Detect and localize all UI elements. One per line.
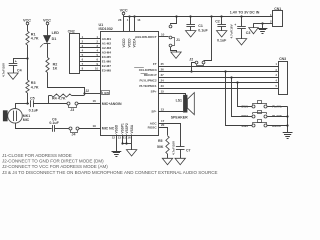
wire SP- to speaker — [158, 111, 183, 113]
ground under VSSA — [126, 150, 136, 156]
svg-text:MIC: MIC — [23, 118, 30, 122]
ground under J1 — [171, 52, 181, 58]
wire PLYL to SW1 — [238, 83, 253, 107]
resistor R4 4.7K — [49, 94, 85, 101]
resistor R5 50K — [157, 136, 169, 154]
jumper J2 — [189, 57, 205, 65]
overline REC — [141, 73, 148, 75]
svg-text:E2-M7: E2-M7 — [102, 64, 111, 68]
svg-text:PLYE/PMC1: PLYE/PMC1 — [139, 84, 157, 88]
earth ground VSSD — [112, 151, 122, 153]
wire to IC LED pin — [84, 93, 100, 95]
svg-text:MIC NC: MIC NC — [102, 127, 115, 131]
svg-text:CN1: CN1 — [274, 7, 281, 11]
wire SW1 to ground bus — [267, 106, 288, 108]
IC LED pin boxed label — [85, 89, 109, 96]
ground under C7 — [175, 158, 185, 164]
junction XCLK drop — [224, 70, 226, 72]
svg-text:20: 20 — [161, 123, 165, 127]
svg-text:A1-M2: A1-M2 — [102, 41, 112, 45]
svg-text:13: 13 — [161, 107, 165, 111]
svg-text:J1: J1 — [176, 38, 180, 42]
junction CN1 ground — [261, 22, 263, 24]
svg-text:5: 5 — [276, 84, 278, 88]
svg-text:REC/R-P: REC/R-P — [144, 73, 157, 77]
wire LED to R2 — [47, 43, 49, 57]
svg-text:CN3: CN3 — [279, 57, 286, 61]
svg-text:21: 21 — [123, 136, 127, 140]
svg-text:VSSP2: VSSP2 — [125, 123, 129, 134]
svg-text:SP-: SP- — [151, 110, 156, 114]
wire C6 to J4 — [55, 128, 69, 130]
wire mic bottom — [15, 123, 17, 128]
svg-text:J2-CONNECT TO VCC FOR ADDRESS: J2-CONNECT TO VCC FOR ADDRESS MODE (AM) — [2, 164, 108, 169]
wire VCCD pin stub 2 — [129, 17, 131, 31]
wire IC A9 pin to J1 — [158, 36, 169, 38]
earth ground CN1 — [258, 23, 268, 33]
svg-text:A9/LOW-DRCT: A9/LOW-DRCT — [135, 35, 157, 39]
svg-text:16: 16 — [137, 18, 141, 22]
power symbol VCC main — [120, 8, 128, 16]
svg-text:4: 4 — [276, 79, 278, 83]
svg-text:R4 4.7K: R4 4.7K — [52, 97, 66, 101]
svg-text:24: 24 — [161, 78, 165, 82]
wire rail to J2 — [204, 17, 212, 61]
wire R5 to ground — [167, 154, 169, 158]
wire SW3 to ground bus — [267, 125, 288, 127]
svg-text:50K: 50K — [157, 145, 164, 149]
svg-text:E0-M5: E0-M5 — [102, 55, 111, 59]
svg-text:0.1uF: 0.1uF — [217, 39, 227, 43]
wire R4 to mic bus — [48, 96, 50, 104]
svg-text:VCC: VCC — [120, 8, 128, 12]
svg-text:4.7uF/16V: 4.7uF/16V — [1, 63, 5, 77]
junction SW2 bus — [286, 115, 288, 117]
svg-text:16: 16 — [127, 136, 131, 140]
junction rail C1 — [189, 15, 191, 17]
svg-text:3: 3 — [276, 73, 278, 77]
node A junction — [26, 57, 28, 59]
svg-text:+: + — [234, 23, 236, 27]
IC top power pin labels — [122, 38, 137, 48]
wire C3 to ground — [241, 29, 243, 39]
svg-text:R5: R5 — [158, 139, 163, 143]
speaker LS1 — [171, 93, 195, 120]
IC bottom ground pin labels — [115, 123, 134, 134]
svg-text:26: 26 — [161, 68, 165, 72]
junction rail J1 — [175, 15, 177, 17]
wire to chassis ground — [254, 23, 263, 25]
svg-text:23: 23 — [161, 84, 165, 88]
svg-text:LS1: LS1 — [176, 99, 182, 103]
svg-text:A3-M4: A3-M4 — [102, 50, 112, 54]
svg-text:VCCD: VCCD — [128, 38, 132, 48]
svg-text:4.7uF/16V: 4.7uF/16V — [172, 141, 176, 155]
wire CN2 pin 8 to IC — [80, 66, 100, 70]
wire REC line to CN3 — [158, 73, 278, 78]
wire to ground triangle — [131, 144, 133, 150]
wire VSSP2 stub — [126, 135, 128, 144]
wire SP+ to speaker — [159, 94, 186, 96]
IC U1 ISD1032 body — [99, 23, 159, 136]
wire rail to J1 top — [171, 17, 177, 25]
wire AGC to C7 — [159, 124, 181, 147]
svg-text:2: 2 — [270, 20, 272, 24]
svg-text:25: 25 — [161, 62, 165, 66]
wire C5 to J3 — [33, 103, 67, 105]
wire node A to C4 — [13, 58, 27, 60]
svg-text:D1: D1 — [52, 37, 57, 41]
svg-text:10: 10 — [95, 66, 98, 70]
overline XCLK — [134, 67, 144, 69]
wire PLYL line to CN3 — [158, 78, 278, 82]
svg-text:0.1uF: 0.1uF — [198, 29, 208, 33]
svg-text:SW2: SW2 — [241, 114, 248, 118]
svg-text:VSSD: VSSD — [115, 124, 119, 133]
junction VSSP1 — [121, 142, 123, 144]
wire switch ground bus — [287, 107, 289, 133]
svg-text:E1-M6: E1-M6 — [102, 59, 111, 63]
wire R2 to LED pin — [48, 73, 85, 96]
svg-text:J2: J2 — [189, 57, 193, 61]
capacitor C4 4.7uF/16V — [1, 59, 21, 77]
svg-text:SPEAKER: SPEAKER — [171, 116, 188, 120]
svg-text:6: 6 — [97, 57, 99, 61]
ground under R5 — [162, 158, 172, 164]
wire R1 to node A — [27, 45, 29, 80]
svg-text:12: 12 — [112, 136, 116, 140]
junction REC drop — [230, 76, 232, 78]
svg-text:16: 16 — [93, 99, 97, 103]
connector CN1 — [270, 7, 283, 27]
IC left pin labels — [102, 37, 112, 73]
svg-text:+: + — [15, 59, 17, 63]
resistor R1 4.7K — [26, 31, 39, 45]
svg-text:1K: 1K — [53, 67, 58, 71]
resistor R3 4.7K — [26, 80, 39, 93]
junction rail J2 — [210, 15, 212, 17]
junction SW3 bus — [286, 124, 288, 126]
wire rail to C2 — [221, 17, 223, 25]
capacitor C3 4.7uF/16V — [230, 23, 251, 39]
wire PLYE line to CN3 — [158, 84, 278, 89]
svg-text:SW1: SW1 — [241, 105, 248, 109]
wire XCLK line to CN3 — [158, 68, 278, 72]
wire C2 to ground — [221, 27, 223, 31]
wire CN1 ground pin — [263, 23, 273, 25]
svg-text:J3 & J4 TO DISCONNECT THE ON B: J3 & J4 TO DISCONNECT THE ON BOARD MICRO… — [2, 170, 217, 175]
junction rail C2 — [220, 15, 222, 17]
svg-text:VCCD: VCCD — [122, 38, 126, 48]
svg-text:MIC+ANGIN: MIC+ANGIN — [102, 102, 122, 106]
svg-text:C2: C2 — [215, 19, 220, 23]
svg-text:LED: LED — [102, 92, 109, 96]
junction PLYL drop — [236, 81, 238, 83]
wire CN2 pin 7 to IC — [80, 62, 100, 66]
earth ground switches — [283, 133, 293, 139]
ground under C4 — [8, 73, 18, 79]
svg-text:C7: C7 — [186, 148, 191, 152]
junction J2 XCLK line — [190, 70, 192, 72]
switch SW2 PLAYE — [241, 111, 282, 119]
svg-text:VSSA: VSSA — [130, 124, 134, 133]
wire rail to C3 — [241, 17, 243, 27]
wire CN2 pin 3 to IC — [80, 44, 100, 48]
wire VSSP1 stub — [122, 135, 124, 144]
svg-text:ISD1032: ISD1032 — [99, 27, 113, 31]
svg-text:VSSP1: VSSP1 — [120, 123, 124, 134]
wire XCLK to SW3 — [226, 72, 253, 126]
svg-text:E3-M8: E3-M8 — [102, 68, 111, 72]
wire SW2 to ground bus — [267, 116, 288, 118]
svg-text:J1-CLOSE FOR ADDRESS MODE: J1-CLOSE FOR ADDRESS MODE — [2, 153, 72, 158]
wire J4 to IC MIC REF pin — [79, 128, 100, 130]
svg-text:1: 1 — [276, 62, 278, 66]
wire J2 to XCLK line — [192, 63, 196, 72]
power symbol VCC (R1 branch) — [23, 19, 31, 32]
jumper J1 — [169, 25, 180, 47]
connector CN2 — [68, 30, 80, 74]
LED D1 — [40, 31, 59, 47]
wire J1 bottom to ground — [171, 47, 177, 53]
svg-text:6: 6 — [82, 57, 84, 61]
svg-text:0.1uF: 0.1uF — [49, 121, 59, 125]
wire C7 to ground — [180, 149, 182, 158]
svg-text:4: 4 — [97, 48, 99, 52]
switch SW3 RECD — [241, 120, 281, 128]
wire VCCD pin 28 stub — [123, 17, 125, 31]
VCC rail wire — [124, 16, 273, 18]
svg-text:C1: C1 — [198, 24, 203, 28]
svg-text:XCLK/PMC3: XCLK/PMC3 — [139, 68, 157, 72]
junction R3/mic bus — [26, 102, 28, 104]
wire J3 to IC MIC+ pin — [78, 103, 100, 105]
connector CN3 — [276, 57, 288, 95]
capacitor C2 0.1uF — [215, 19, 227, 42]
svg-text:FT: FT — [153, 62, 157, 66]
svg-text:10: 10 — [161, 32, 165, 36]
wire VSSA stub — [131, 135, 133, 144]
svg-text:A2-M3: A2-M3 — [102, 46, 112, 50]
svg-text:15: 15 — [161, 89, 165, 93]
wire ROSC to R5 — [159, 128, 168, 136]
wire CN2 pin 6 to IC — [80, 57, 100, 61]
wire CN2 pin 1 to IC — [80, 35, 100, 39]
junction VSSP2 — [125, 142, 127, 144]
ground under C1 — [186, 31, 196, 37]
microphone MK1 — [3, 109, 30, 124]
wire C4 to ground — [13, 66, 15, 73]
svg-text:4.7uF/16V: 4.7uF/16V — [230, 24, 234, 38]
svg-text:2: 2 — [82, 39, 84, 43]
jumper J4 — [69, 127, 79, 137]
capacitor C5 0.1uF — [29, 96, 39, 112]
svg-text:VCCA: VCCA — [133, 38, 137, 48]
svg-text:CN2: CN2 — [68, 30, 75, 34]
capacitor C7 4.7uF/16V — [172, 141, 191, 155]
wire CN2 pin 5 to IC — [80, 53, 100, 57]
svg-text:8: 8 — [82, 66, 84, 70]
wire rail to C1 — [190, 17, 192, 25]
svg-text:J4: J4 — [72, 133, 76, 137]
svg-text:0.1uF: 0.1uF — [29, 109, 39, 113]
power symbol VCC (LED branch) — [43, 19, 51, 36]
wire CN2 pin 2 to IC — [80, 39, 100, 43]
jumper J3 — [67, 102, 78, 112]
svg-text:C3: C3 — [246, 31, 251, 35]
svg-text:SP+: SP+ — [151, 90, 157, 94]
wire mic top to bus — [15, 104, 17, 109]
ground triangle CN1 — [249, 28, 259, 34]
junction rail VCCA — [133, 15, 135, 17]
svg-text:J3: J3 — [70, 108, 74, 112]
svg-text:27: 27 — [161, 73, 165, 77]
svg-text:22: 22 — [85, 89, 89, 93]
svg-text:LED: LED — [52, 31, 60, 35]
svg-text:J2-CONNECT TO GND FOR DIRECT M: J2-CONNECT TO GND FOR DIRECT MODE (DM) — [2, 159, 104, 164]
svg-text:1: 1 — [127, 18, 129, 22]
svg-text:1.4V TO 3V DC IN: 1.4V TO 3V DC IN — [230, 11, 260, 15]
svg-text:13: 13 — [118, 136, 122, 140]
wire CN2 pin 4 to IC — [80, 48, 100, 52]
wire C1 to ground — [190, 27, 192, 31]
svg-text:SW3: SW3 — [241, 124, 248, 128]
junction rail VCCD — [128, 15, 130, 17]
svg-text:ROSC: ROSC — [148, 125, 158, 129]
svg-text:4: 4 — [82, 48, 84, 52]
svg-text:2: 2 — [97, 39, 99, 43]
svg-text:4.7K: 4.7K — [31, 85, 39, 89]
svg-text:4.7K: 4.7K — [31, 37, 39, 41]
switch SW1 PLAYL — [241, 101, 282, 109]
ground under C3 — [236, 39, 246, 45]
wire REC to SW2 — [232, 78, 253, 117]
IC right pin labels — [135, 35, 157, 129]
ground under C2 — [217, 31, 227, 37]
wire ground bus — [122, 143, 131, 145]
wire FT line to CN3 — [158, 62, 278, 67]
svg-text:A0-M1: A0-M1 — [102, 37, 112, 41]
svg-text:28: 28 — [118, 18, 122, 22]
resistor R2 1K — [46, 58, 58, 73]
svg-text:PLYL/PMC2: PLYL/PMC2 — [140, 79, 157, 83]
svg-text:19: 19 — [93, 124, 97, 128]
capacitor C6 0.1uF — [49, 117, 59, 131]
svg-text:C4: C4 — [17, 68, 22, 72]
svg-text:C5: C5 — [30, 96, 35, 100]
wire R3 to mic bus — [27, 93, 29, 104]
junction LED pin node — [83, 92, 85, 94]
junction rail C3 — [240, 15, 242, 17]
wire VSSD pin to ground — [116, 135, 118, 152]
wire VCCA pin 16 stub — [134, 17, 136, 31]
capacitor C1 0.1uF — [186, 24, 208, 33]
